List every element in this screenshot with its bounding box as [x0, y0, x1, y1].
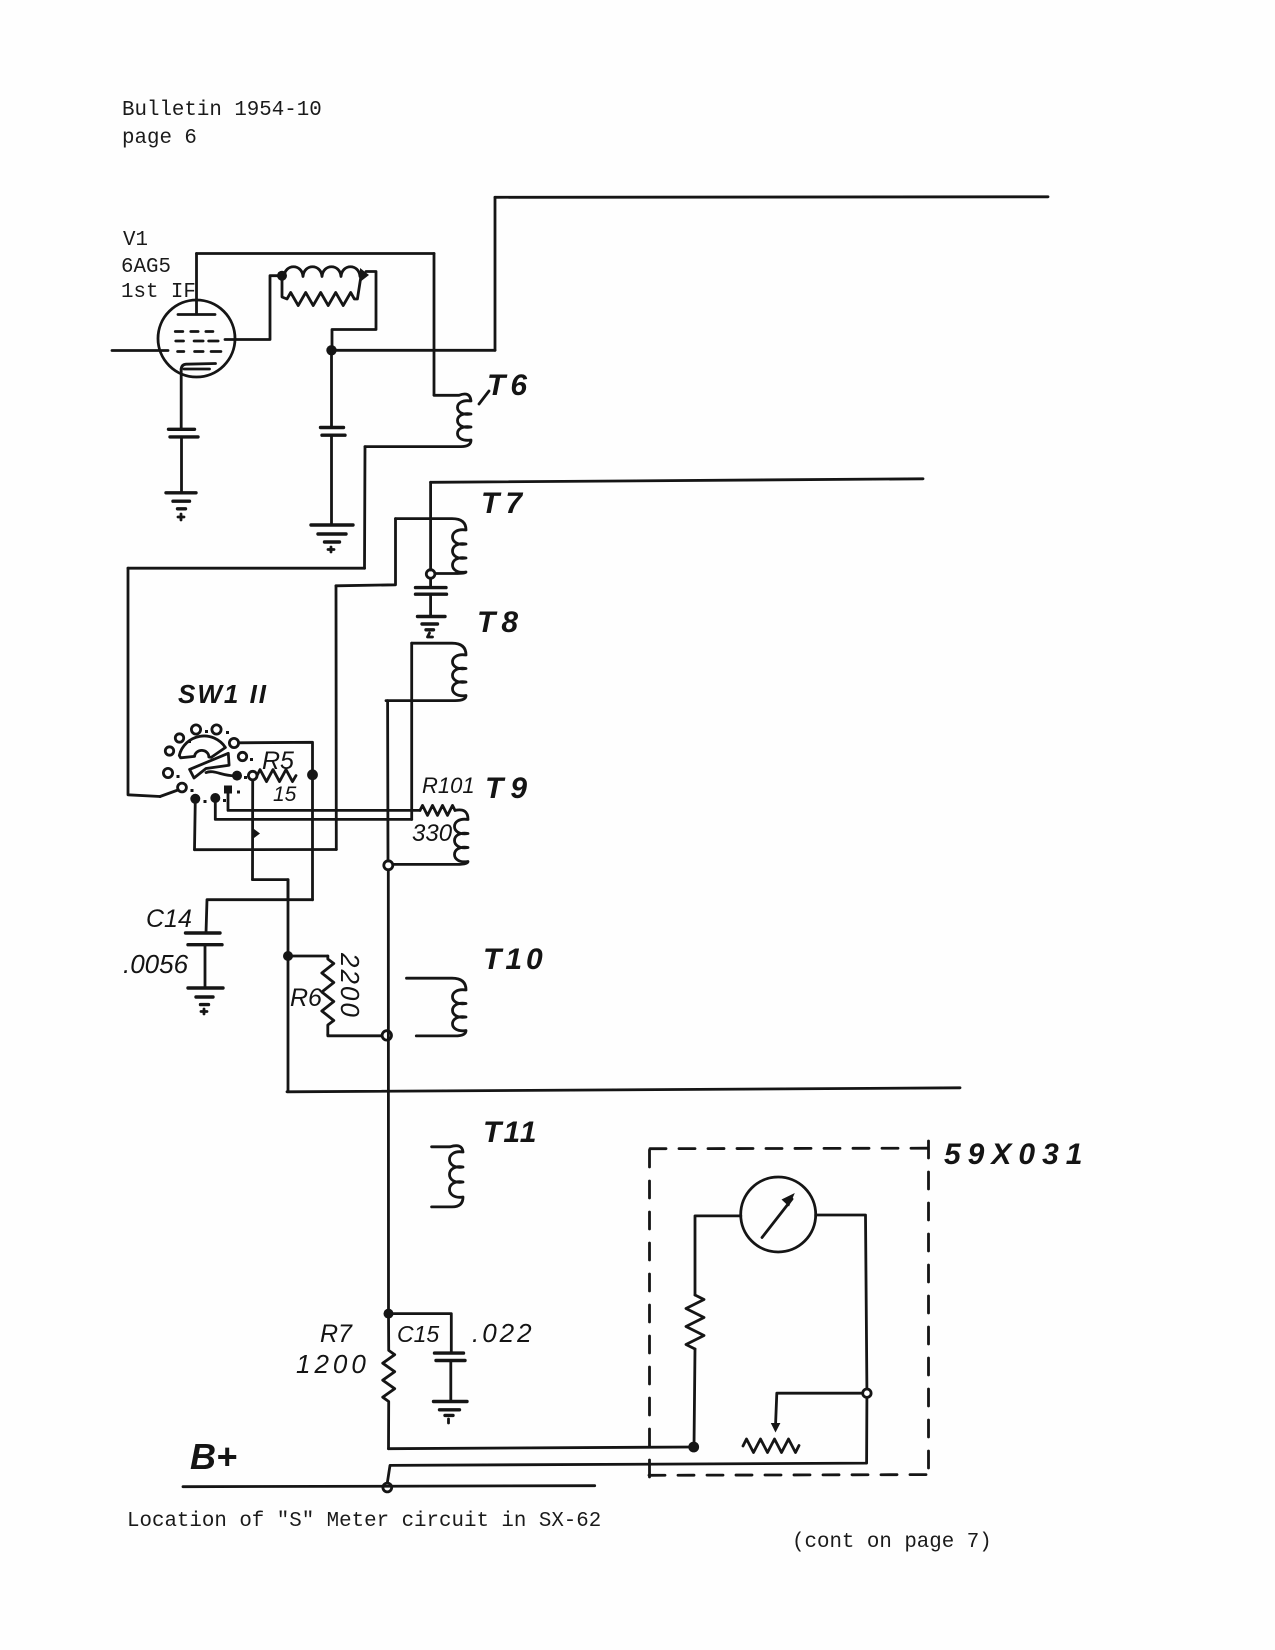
wire left vertical to switch	[128, 568, 160, 796]
wire grid input left	[112, 349, 168, 352]
svg-text:V1: V1	[123, 229, 148, 252]
node R5 feed	[232, 771, 242, 781]
tube V1 grid 3 dashes	[178, 350, 221, 353]
switch contact R5 left (open)	[248, 771, 257, 780]
node switch dot A	[190, 794, 200, 804]
svg-text:Location of "S" Meter circuit: Location of "S" Meter circuit in SX-62	[127, 1510, 601, 1533]
node RL right arrowhead	[360, 268, 369, 282]
arrow pot wiper	[771, 1423, 781, 1433]
ground C14	[188, 988, 223, 1005]
svg-text:1200: 1200	[296, 1349, 370, 1379]
arrow tick on wire	[252, 828, 260, 840]
switch contact 4	[165, 747, 173, 755]
tube V1 grid 1 dashes	[175, 330, 213, 333]
tube V1 label	[121, 229, 196, 304]
header text	[122, 99, 322, 150]
wire jog to C14	[206, 880, 313, 933]
resistor meter series	[686, 1295, 704, 1349]
coil T10	[407, 978, 467, 1036]
wire R5 left contact down	[251, 780, 254, 880]
svg-text:R6: R6	[290, 984, 322, 1012]
wire tube output to RL network	[225, 276, 281, 340]
switch rotor fan	[179, 736, 225, 758]
wire horizontal to left edge	[128, 567, 365, 570]
meter needle	[762, 1199, 792, 1238]
wire to C15	[389, 1314, 452, 1353]
tube V1 envelope	[158, 300, 235, 377]
svg-text:SW1 II: SW1 II	[178, 679, 268, 709]
svg-text:C15: C15	[397, 1321, 439, 1347]
node R7 top	[384, 1309, 394, 1319]
resistor R6	[322, 956, 334, 1035]
wire plate top	[197, 252, 435, 255]
wire meter right lead	[816, 1215, 867, 1389]
wire R5 right loop to contact 7	[239, 742, 313, 775]
ground C15	[434, 1402, 468, 1416]
svg-text:T7: T7	[481, 487, 528, 520]
svg-text:6AG5: 6AG5	[121, 256, 171, 279]
switch contact 1	[191, 725, 200, 734]
tube V1 cathode	[181, 364, 215, 371]
wire T7 top line	[431, 479, 923, 483]
node T9 bottom (open)	[384, 861, 393, 870]
wire T7 left side down	[336, 519, 396, 586]
svg-text:Bulletin 1954-10: Bulletin 1954-10	[122, 99, 322, 122]
potentiometer element	[743, 1439, 799, 1453]
svg-text:T6: T6	[487, 369, 532, 402]
node R6 top	[283, 951, 293, 961]
wire plate drop to T6	[433, 254, 436, 396]
wire A to R101	[228, 794, 420, 811]
node T7 bottom (open)	[426, 570, 435, 579]
wire resistor to pot node	[694, 1349, 695, 1447]
svg-text:T9: T9	[485, 772, 534, 805]
wire top line	[495, 195, 1048, 198]
svg-text:B+: B+	[190, 1436, 237, 1477]
capacitor T7 bypass	[429, 578, 432, 587]
wire riser to top line	[494, 197, 497, 350]
wire T7 drop	[429, 482, 432, 570]
wire R5 right down to C14 bus	[311, 775, 314, 900]
coil T11	[432, 1146, 463, 1207]
wire wiper to contact 6	[160, 790, 178, 797]
switch wiper arm	[190, 753, 230, 778]
resistor R5	[257, 770, 296, 782]
node B+ tap (open)	[383, 1483, 392, 1492]
wire row horizontal	[195, 848, 337, 851]
wire C15 to ground	[449, 1361, 452, 1402]
node R6 bottom (open)	[382, 1031, 391, 1040]
tube V1 lower line	[184, 368, 210, 371]
svg-text:(cont on page 7): (cont on page 7)	[792, 1531, 992, 1554]
svg-text:T11: T11	[483, 1116, 538, 1149]
capacitor cathode bypass	[169, 429, 199, 437]
tube V1 grid 2 dashes	[176, 340, 218, 343]
wire switch dot A down to row	[193, 799, 197, 850]
node R5 right	[307, 769, 318, 780]
wire T9 node down long vertical	[387, 870, 390, 1314]
wire wiper arm to R5	[206, 772, 237, 776]
wire long bus y1090	[287, 1088, 960, 1092]
inductor L (top path of RL)	[284, 267, 360, 277]
wire long vertical to switch row	[335, 586, 338, 850]
meter M	[741, 1177, 816, 1252]
capacitor C15	[435, 1353, 466, 1360]
coil T8	[386, 643, 466, 700]
node switch dot B	[210, 793, 220, 803]
wire meter left lead	[695, 1216, 741, 1295]
wire cap to ground	[180, 437, 183, 493]
svg-text:.0056: .0056	[123, 949, 189, 979]
tube V1 plate	[178, 313, 215, 316]
tick near T6	[479, 391, 489, 404]
capacitor screen bypass	[321, 428, 346, 436]
wire junction down to screen cap	[330, 350, 333, 427]
wire tap down and return to B+	[387, 1398, 867, 1484]
switch contact 3	[175, 734, 183, 742]
resistor R7	[383, 1314, 395, 1449]
svg-text:330: 330	[412, 820, 453, 847]
node wiper tap (open)	[863, 1389, 871, 1397]
switch contact specks	[177, 730, 254, 803]
switch contact 6 wiper return	[178, 783, 187, 792]
coil T7	[396, 519, 467, 574]
node pot left	[688, 1442, 699, 1453]
svg-text:R101: R101	[422, 773, 475, 798]
switch contact 7	[229, 738, 238, 747]
svg-text:R5: R5	[262, 747, 294, 775]
switch contact 8	[238, 752, 246, 760]
wire R6 top lead	[288, 955, 328, 958]
ground cathode	[166, 493, 196, 509]
capacitor C14	[186, 933, 223, 945]
wire main B+ bus right of junction	[332, 349, 496, 352]
wire T6 return down-left	[363, 447, 366, 569]
dashed box 59X031	[648, 1150, 651, 1477]
wire screen cap to ground	[330, 435, 333, 525]
svg-text:59X031: 59X031	[944, 1138, 1089, 1171]
ground screen cap	[311, 525, 353, 542]
wire B+ line	[183, 1486, 595, 1487]
svg-text:T10: T10	[483, 943, 547, 976]
node RL left	[277, 271, 287, 281]
coil T9	[393, 810, 468, 865]
svg-text:C14: C14	[146, 905, 192, 933]
svg-text:R7: R7	[320, 1320, 353, 1348]
svg-text:T8: T8	[477, 606, 524, 639]
contact square	[224, 786, 232, 794]
wire B to T8 drop	[215, 798, 411, 819]
svg-text:2200: 2200	[335, 952, 365, 1019]
svg-text:15: 15	[273, 783, 297, 806]
svg-text:.022: .022	[472, 1318, 535, 1348]
switch contact 5	[163, 768, 172, 777]
switch contact 2	[212, 725, 221, 734]
wire C14 bus vertical down	[287, 880, 290, 1092]
coil T6	[365, 394, 471, 447]
tube V1 plate lead	[195, 254, 198, 315]
wire C14 to ground	[204, 945, 207, 988]
wire T7 cap to ground	[429, 594, 432, 616]
wire T8 bottom-left vertical down to T9 node	[386, 701, 389, 861]
node junction screen	[326, 345, 336, 355]
ground T7	[418, 617, 446, 630]
resistor (bottom path of RL)	[282, 276, 361, 306]
wire R7 to pot	[389, 1447, 694, 1449]
tube V1 cathode lead	[180, 369, 183, 429]
wire wiper feed	[776, 1393, 863, 1423]
svg-text:page 6: page 6	[122, 127, 197, 150]
wire R6 bottom lead	[328, 1035, 382, 1036]
wire T8 top-left vertical down to wire B	[410, 643, 413, 819]
wire RL right to junction	[332, 272, 376, 351]
resistor R101	[420, 805, 455, 815]
